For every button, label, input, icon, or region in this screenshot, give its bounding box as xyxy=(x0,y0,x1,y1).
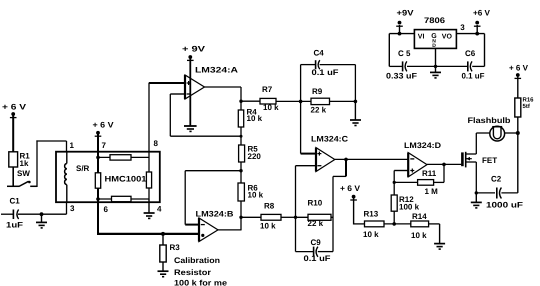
svg-text:FET: FET xyxy=(482,156,497,165)
wire opamp B output xyxy=(218,229,241,231)
svg-text:10 k: 10 k xyxy=(247,114,263,123)
junction C output feedback xyxy=(344,158,348,162)
svg-text:10 k: 10 k xyxy=(260,222,276,231)
wire pin7 +6V rail through chip to bus xyxy=(97,132,99,235)
svg-text:VO: VO xyxy=(442,34,453,41)
ground (R9/C4) xyxy=(350,101,361,125)
svg-text:0.33 uF: 0.33 uF xyxy=(386,72,417,81)
svg-text:C4: C4 xyxy=(314,49,325,58)
junction R11 left xyxy=(393,181,396,184)
svg-text:LM324:B: LM324:B xyxy=(196,209,234,218)
junction divider xyxy=(392,222,396,226)
junction pin7/bottom xyxy=(96,197,100,201)
wire R4 to R5 xyxy=(240,127,242,145)
capacitor C1 xyxy=(1,197,42,230)
supply +6V left xyxy=(2,103,27,153)
wire C1 to pin3 xyxy=(42,202,67,215)
wire R13 to R14 xyxy=(384,223,411,225)
ground (R14) xyxy=(434,244,445,250)
resistor R4 xyxy=(238,108,262,128)
svg-text:+ 9V: + 9V xyxy=(182,45,206,54)
ground (R3) xyxy=(158,271,169,277)
svg-text:1: 1 xyxy=(70,141,75,150)
svg-text:0.1 uF: 0.1 uF xyxy=(304,254,331,263)
resistor R16 xyxy=(515,97,534,118)
svg-text:R9: R9 xyxy=(312,87,323,96)
svg-text:5tf: 5tf xyxy=(523,103,531,110)
svg-text:10 k: 10 k xyxy=(263,103,279,112)
wire 7806 bottom xyxy=(389,65,484,67)
ground (7806) xyxy=(430,48,441,78)
svg-text:6: 6 xyxy=(104,205,109,214)
resistor R9 xyxy=(301,87,356,115)
svg-text:0.1 uF: 0.1 uF xyxy=(312,68,339,77)
svg-text:LM324:A: LM324:A xyxy=(195,66,238,75)
svg-text:C6: C6 xyxy=(465,49,476,58)
svg-text:22 k: 22 k xyxy=(308,219,324,228)
wire pin8 / opamp A + input vertical xyxy=(148,83,150,199)
svg-text:LM324:C: LM324:C xyxy=(311,135,348,144)
wire opamp A feedback loop xyxy=(170,94,241,136)
ground (output stage) xyxy=(471,193,482,208)
svg-text:Calibration: Calibration xyxy=(174,256,220,265)
wire R1 to switch xyxy=(12,167,14,186)
svg-text:7: 7 xyxy=(102,141,107,150)
wire node to opamp C + input xyxy=(301,101,317,153)
capacitor C9 xyxy=(296,238,334,263)
svg-text:R3: R3 xyxy=(170,243,181,252)
wire 7806 output side xyxy=(456,34,484,67)
wire FET source down xyxy=(475,162,477,193)
resistor R12 xyxy=(391,182,419,224)
resistor R11 xyxy=(394,164,444,195)
svg-text:HMC1001: HMC1001 xyxy=(105,175,148,184)
resistor R6 xyxy=(238,183,264,201)
svg-text:R11: R11 xyxy=(422,169,437,178)
svg-text:100 k for me: 100 k for me xyxy=(174,279,228,286)
wire FET drain to flashbulb xyxy=(475,133,477,154)
supply +6V (7806 out) xyxy=(473,9,491,34)
op-amp U1A LM324:A xyxy=(185,59,238,126)
svg-text:4: 4 xyxy=(157,205,162,214)
svg-text:3: 3 xyxy=(460,23,465,32)
wire bridge bottom xyxy=(98,198,149,200)
svg-text:R16: R16 xyxy=(523,97,535,104)
junction feedback B xyxy=(239,169,242,172)
resistor R5 xyxy=(239,145,262,163)
wire bus pin6 to opamp B + input xyxy=(97,233,200,235)
wire opamp A + input xyxy=(149,82,185,84)
resistor R7 xyxy=(260,85,279,112)
svg-text:0.1 uF: 0.1 uF xyxy=(462,72,485,81)
wire R6 to B output xyxy=(240,201,242,230)
capacitor C5 xyxy=(386,49,417,81)
wire bridge top xyxy=(98,156,149,158)
wire opamp C - input node xyxy=(296,166,317,252)
bridge resistor right xyxy=(146,172,151,188)
svg-text:220: 220 xyxy=(248,152,262,161)
wire opamp A - input xyxy=(170,93,185,95)
resistor R8 xyxy=(260,202,281,231)
bridge resistor top xyxy=(110,155,131,160)
svg-text:D: D xyxy=(432,43,436,49)
wire to R8 xyxy=(241,216,261,218)
wire opamp D + input xyxy=(394,171,408,183)
svg-text:1uF: 1uF xyxy=(6,221,23,230)
svg-text:Resistor: Resistor xyxy=(174,268,211,277)
wire opamp D output to FET gate xyxy=(427,163,461,165)
transistor FET xyxy=(462,152,497,168)
junction C1-ground xyxy=(40,212,44,216)
junction D output / R11 xyxy=(442,163,446,167)
junction R9/C4 right xyxy=(354,100,358,104)
resistor R3 xyxy=(160,234,180,271)
svg-text:7806: 7806 xyxy=(424,16,446,25)
svg-text:100 k: 100 k xyxy=(399,203,420,212)
svg-text:+ 6 V: + 6 V xyxy=(93,121,115,130)
junction bus/R3 xyxy=(161,232,165,236)
svg-text:R8: R8 xyxy=(264,202,275,211)
resistor R10 xyxy=(296,199,334,229)
supply +6V right xyxy=(509,64,529,99)
resistor R13 xyxy=(354,210,384,240)
svg-text:R14: R14 xyxy=(412,212,427,221)
svg-text:C9: C9 xyxy=(311,238,322,247)
svg-text:10 k: 10 k xyxy=(363,230,379,239)
svg-text:SW: SW xyxy=(17,169,30,178)
svg-text:3: 3 xyxy=(70,204,75,213)
supply +9V (opamp A) xyxy=(182,45,206,61)
supply +6V (divider) xyxy=(340,184,361,225)
svg-text:R10: R10 xyxy=(308,199,323,208)
svg-text:+ 6 V: + 6 V xyxy=(340,184,361,193)
bridge resistor bottom xyxy=(112,196,132,201)
svg-text:1k: 1k xyxy=(20,159,29,168)
wire R7 from A output node xyxy=(241,100,260,102)
regulator 7806 box xyxy=(414,16,465,49)
ground (pin 4) xyxy=(144,213,155,218)
lamp Flashbulb xyxy=(468,116,518,141)
svg-text:1000 uF: 1000 uF xyxy=(486,201,523,210)
junction R7/R9/C4 xyxy=(299,100,303,104)
capacitor C6 xyxy=(462,49,485,81)
op-amp U1D LM324:D xyxy=(404,141,441,177)
junction 7806 out xyxy=(475,32,479,36)
wire opamp A output xyxy=(205,87,242,110)
supply +6V (pin7) xyxy=(93,121,115,137)
svg-text:+ 6 V: + 6 V xyxy=(2,103,27,112)
junction pin7/top xyxy=(96,156,100,160)
S/R coil xyxy=(65,152,90,203)
svg-text:1 M: 1 M xyxy=(425,187,439,196)
junction C- / R8 / R10 xyxy=(294,216,297,219)
svg-text:LM324:D: LM324:D xyxy=(404,141,441,150)
svg-text:+ 6 V: + 6 V xyxy=(509,64,529,73)
supply +9V (7806 in) xyxy=(396,9,414,34)
junction FET source / C2 / ground xyxy=(475,191,478,194)
op-amp U1B LM324:B xyxy=(196,209,234,241)
resistor R14 xyxy=(411,212,429,240)
capacitor C4 xyxy=(301,49,356,102)
svg-text:+9V: +9V xyxy=(397,9,415,18)
svg-text:C 5: C 5 xyxy=(398,49,411,58)
junction A feedback / R4 bottom xyxy=(240,135,243,138)
svg-text:R7: R7 xyxy=(262,85,273,94)
wire R5 to R6 xyxy=(240,162,242,183)
IC HMC1001 package box xyxy=(56,152,160,203)
wire R8 to opamp C - node xyxy=(281,216,296,218)
svg-text:8: 8 xyxy=(154,139,159,148)
junction flashbulb / rail xyxy=(516,131,520,135)
bridge resistor left xyxy=(95,173,100,188)
svg-text:VI: VI xyxy=(418,34,425,41)
wire R14 to ground xyxy=(429,224,440,243)
switch SW xyxy=(7,169,37,187)
op-amp U1C LM324:C xyxy=(311,135,348,172)
label calibration note xyxy=(174,256,228,286)
wire right rail xyxy=(517,117,519,193)
wire opamp C output to D - input xyxy=(335,158,408,160)
svg-text:R13: R13 xyxy=(364,210,379,219)
ground (C1) xyxy=(36,214,47,228)
svg-text:Flashbulb: Flashbulb xyxy=(468,116,511,125)
ground (opamp A power) xyxy=(184,126,197,131)
resistor R1 xyxy=(9,152,30,169)
wire R7 to node xyxy=(276,100,301,102)
svg-text:C2: C2 xyxy=(491,175,502,184)
wire C feedback right vertical xyxy=(333,159,346,252)
svg-text:22 k: 22 k xyxy=(311,106,327,115)
svg-text:+6 V: +6 V xyxy=(473,9,491,18)
wire switch to pin1 xyxy=(36,140,66,187)
svg-text:S/R: S/R xyxy=(76,164,90,173)
junction 7806 in xyxy=(398,32,402,36)
svg-text:10 k: 10 k xyxy=(248,191,264,200)
wire pin4 xyxy=(148,199,150,213)
wire feedback to opamp B - input xyxy=(185,171,241,225)
junction R6/R8 xyxy=(239,216,242,219)
wire 7806 input side xyxy=(389,34,414,67)
svg-text:10 k: 10 k xyxy=(411,231,427,240)
capacitor C2 xyxy=(476,175,523,210)
svg-text:C1: C1 xyxy=(10,197,21,206)
junction A output / R7 xyxy=(239,100,242,103)
